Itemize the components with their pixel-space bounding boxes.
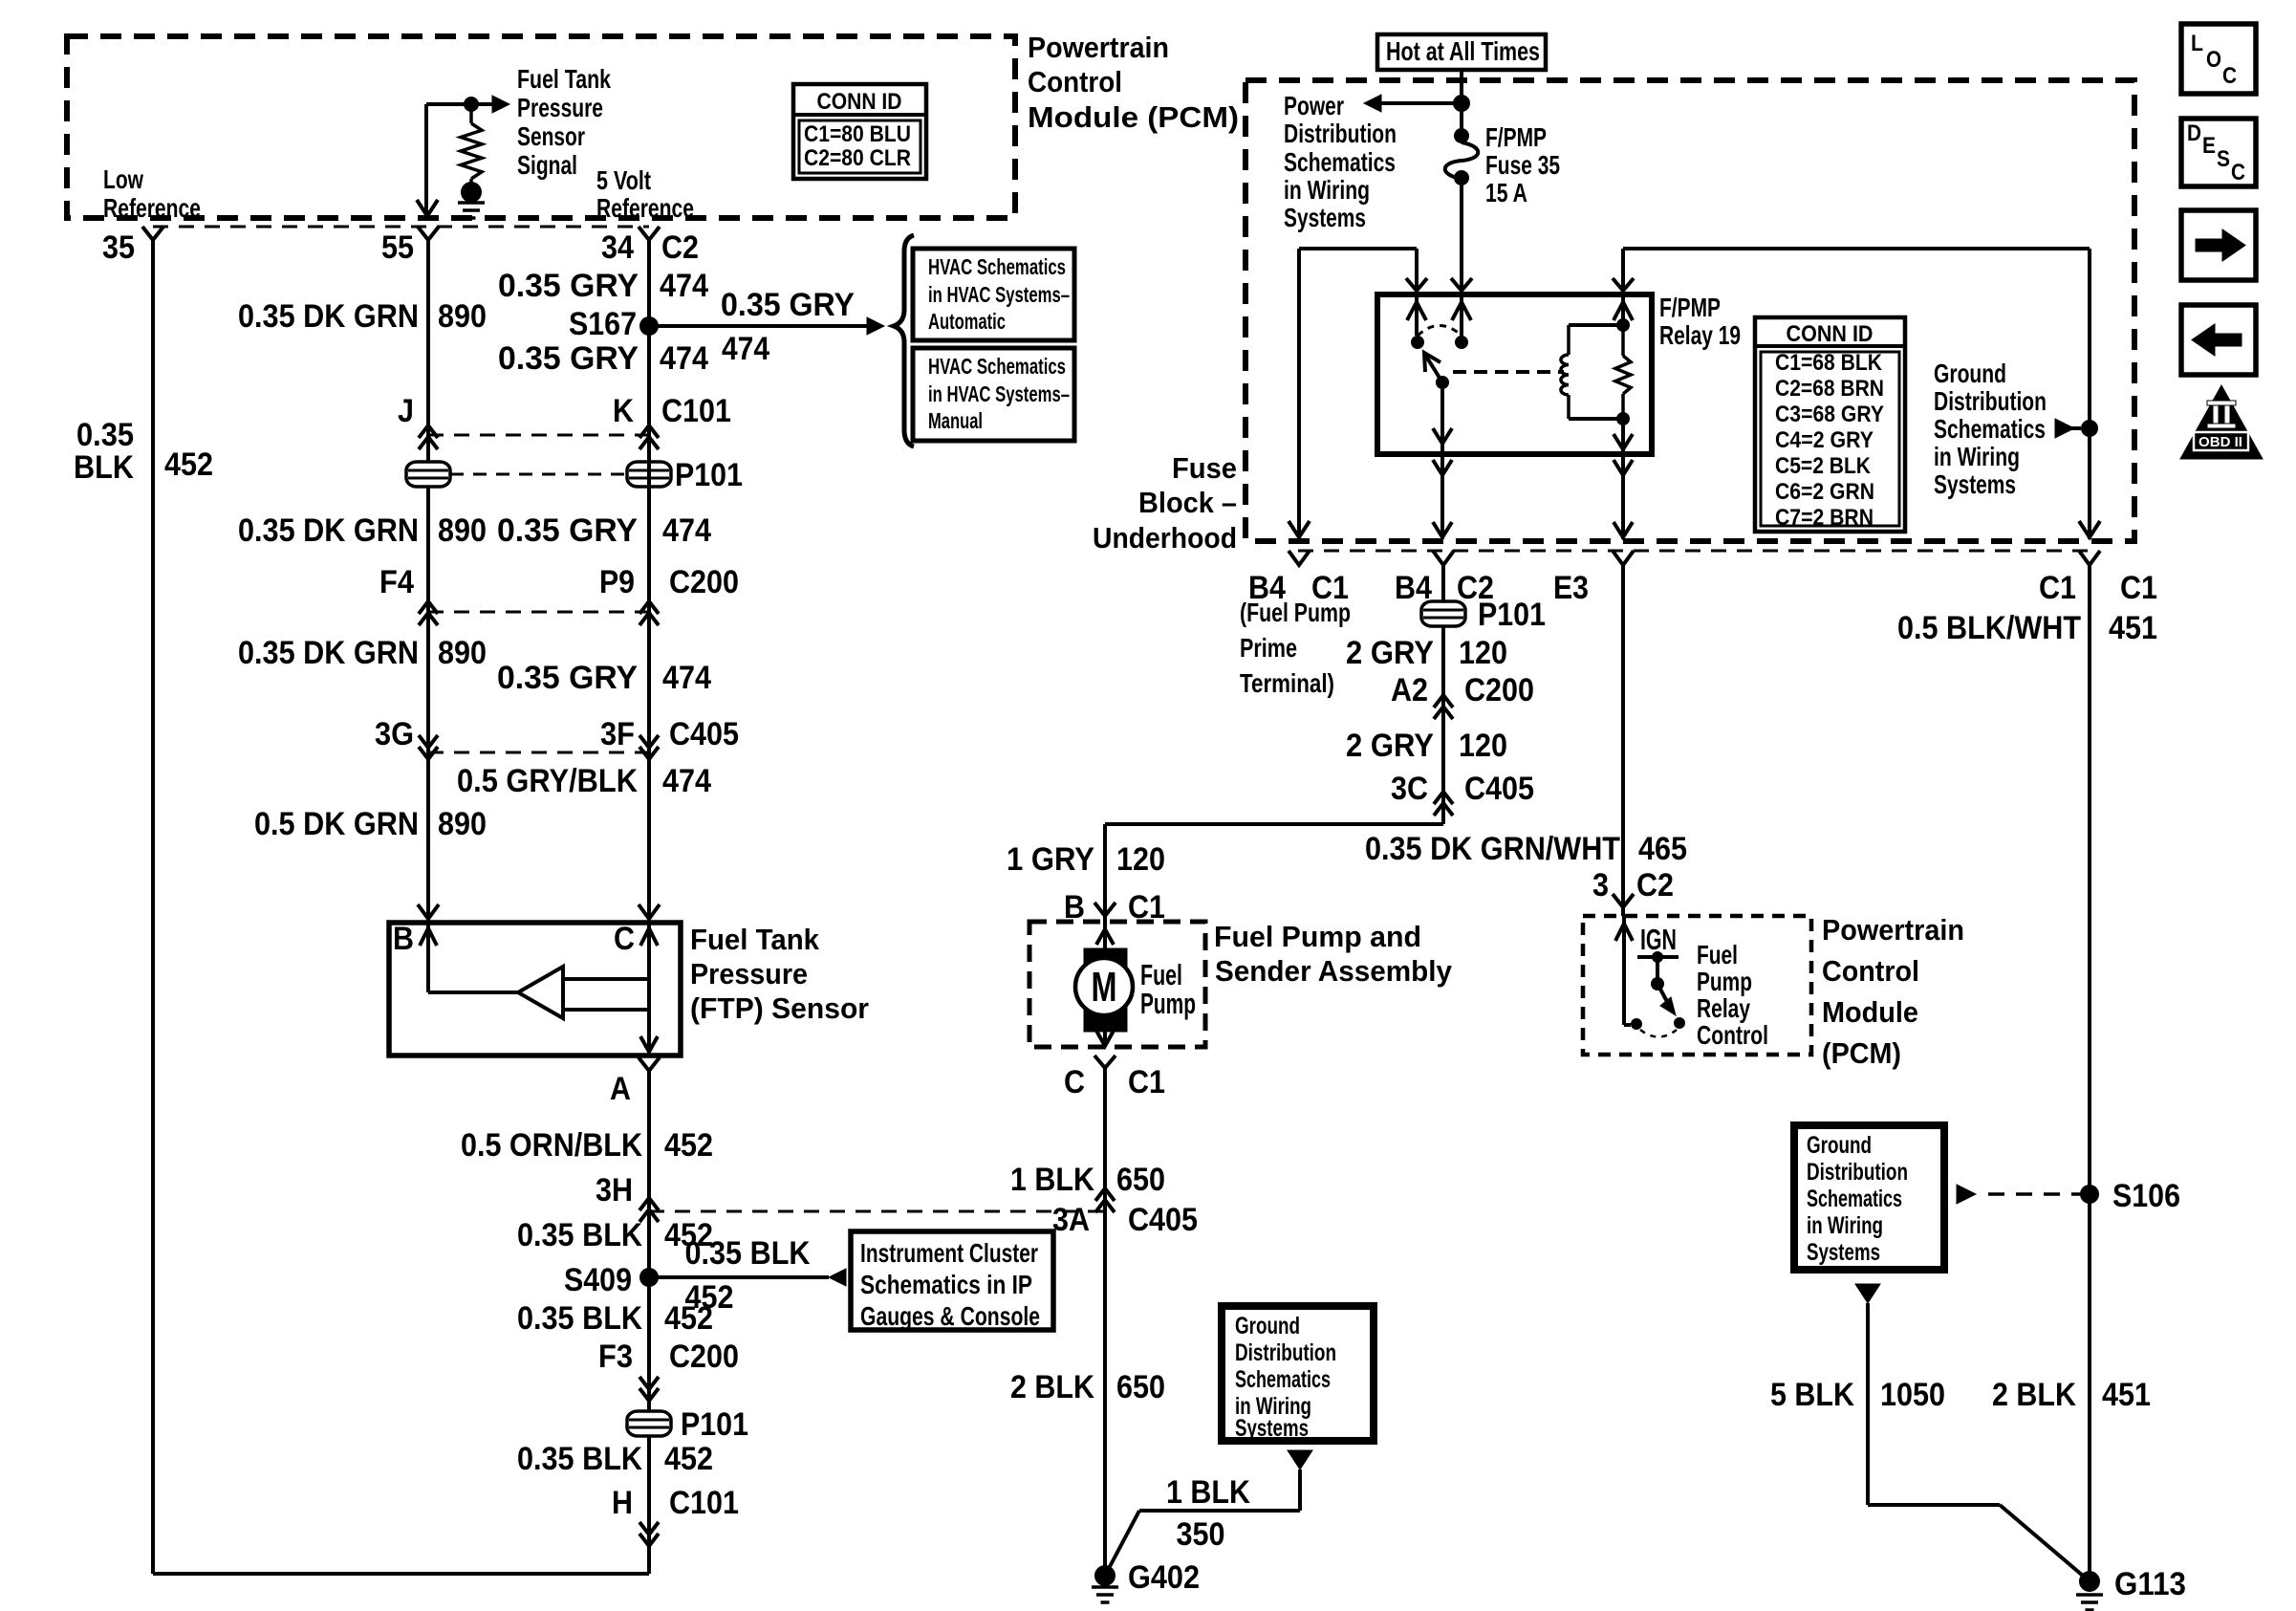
svg-text:K: K [613, 393, 634, 429]
svg-text:474: 474 [660, 340, 708, 377]
svg-text:120: 120 [1459, 728, 1507, 764]
svg-text:474: 474 [660, 268, 708, 304]
svg-text:E: E [2202, 133, 2216, 159]
svg-text:C: C [2222, 63, 2237, 89]
svg-text:S106: S106 [2112, 1178, 2180, 1214]
svg-text:C405: C405 [1464, 771, 1534, 807]
svg-text:452: 452 [664, 1300, 713, 1337]
svg-text:15 A: 15 A [1485, 178, 1527, 207]
svg-text:Relay: Relay [1697, 993, 1750, 1023]
svg-text:Terminal): Terminal) [1240, 668, 1334, 698]
svg-text:0.35 GRY: 0.35 GRY [498, 340, 639, 377]
svg-text:CONN ID: CONN ID [817, 89, 902, 115]
svg-text:Schematics: Schematics [1934, 414, 2046, 444]
svg-text:Signal: Signal [517, 150, 577, 180]
svg-text:890: 890 [438, 806, 487, 842]
svg-text:C1: C1 [2120, 570, 2157, 606]
svg-text:890: 890 [438, 298, 487, 335]
svg-text:HVAC Schematics: HVAC Schematics [928, 254, 1066, 279]
svg-text:2 GRY: 2 GRY [1346, 728, 1434, 764]
svg-text:Control: Control [1697, 1020, 1768, 1050]
svg-text:S167: S167 [569, 306, 637, 342]
svg-text:C: C [1064, 1064, 1085, 1100]
svg-text:C200: C200 [669, 1339, 739, 1375]
svg-text:120: 120 [1116, 841, 1165, 878]
svg-text:3: 3 [1592, 867, 1609, 903]
svg-text:C405: C405 [669, 716, 739, 752]
svg-text:J: J [398, 393, 414, 429]
svg-text:3F: 3F [600, 716, 635, 752]
svg-text:Schematics: Schematics [1807, 1186, 1902, 1212]
svg-text:0.35 BLK: 0.35 BLK [685, 1235, 811, 1272]
svg-text:M: M [1092, 964, 1117, 1011]
svg-text:H: H [612, 1485, 633, 1521]
svg-text:0.35 GRY: 0.35 GRY [497, 660, 638, 696]
svg-text:Fuse 35: Fuse 35 [1485, 150, 1560, 180]
svg-text:C200: C200 [1464, 672, 1534, 708]
svg-text:OBD II: OBD II [2199, 434, 2242, 450]
svg-text:0.5 DK GRN: 0.5 DK GRN [254, 806, 419, 842]
svg-text:in HVAC Systems–: in HVAC Systems– [928, 282, 1070, 307]
svg-text:C5=2 BLK: C5=2 BLK [1775, 453, 1872, 479]
svg-text:BLK: BLK [74, 449, 134, 486]
svg-text:452: 452 [164, 446, 213, 483]
svg-text:Powertrain: Powertrain [1028, 31, 1169, 64]
svg-text:1 GRY: 1 GRY [1007, 841, 1094, 878]
svg-text:Relay 19: Relay 19 [1659, 320, 1741, 350]
svg-text:F/PMP: F/PMP [1659, 293, 1721, 322]
svg-text:Power: Power [1284, 91, 1344, 120]
svg-text:A2: A2 [1391, 672, 1428, 708]
svg-text:E3: E3 [1553, 570, 1589, 606]
svg-text:Fuel Pump and: Fuel Pump and [1214, 920, 1421, 953]
svg-text:0.35 BLK: 0.35 BLK [517, 1217, 642, 1253]
svg-text:Systems: Systems [1934, 469, 2016, 499]
svg-text:A: A [610, 1071, 631, 1107]
svg-text:in Wiring: in Wiring [1934, 442, 2020, 471]
svg-text:(PCM): (PCM) [1822, 1036, 1901, 1070]
svg-text:C101: C101 [669, 1485, 739, 1521]
svg-text:C3=68 GRY: C3=68 GRY [1775, 402, 1884, 427]
svg-text:3H: 3H [596, 1172, 633, 1208]
svg-text:C200: C200 [669, 564, 739, 600]
svg-text:Control: Control [1028, 65, 1122, 98]
svg-text:0.5 GRY/BLK: 0.5 GRY/BLK [457, 763, 638, 799]
svg-text:D: D [2187, 120, 2201, 146]
svg-text:Automatic: Automatic [928, 309, 1006, 334]
svg-text:120: 120 [1459, 635, 1507, 671]
svg-text:Schematics: Schematics [1284, 147, 1396, 177]
svg-text:G402: G402 [1128, 1559, 1200, 1596]
svg-text:C2: C2 [1636, 867, 1674, 903]
svg-text:35: 35 [102, 229, 135, 266]
svg-text:0.35 BLK: 0.35 BLK [517, 1300, 642, 1337]
svg-text:Systems: Systems [1284, 203, 1366, 232]
svg-text:S: S [2217, 146, 2230, 172]
svg-text:2 GRY: 2 GRY [1346, 635, 1434, 671]
svg-text:0.35 BLK: 0.35 BLK [517, 1441, 642, 1477]
svg-text:C2=68 BRN: C2=68 BRN [1775, 376, 1884, 402]
svg-text:3A: 3A [1052, 1202, 1090, 1238]
svg-text:Distribution: Distribution [1807, 1159, 1908, 1186]
svg-text:Distribution: Distribution [1284, 119, 1397, 148]
svg-text:5 BLK: 5 BLK [1770, 1377, 1854, 1413]
svg-text:5 Volt: 5 Volt [596, 165, 651, 195]
svg-text:0.35 DK GRN: 0.35 DK GRN [238, 635, 419, 671]
svg-text:Control: Control [1822, 954, 1919, 988]
svg-text:S409: S409 [564, 1262, 632, 1298]
svg-text:O: O [2206, 47, 2221, 73]
svg-text:3G: 3G [375, 716, 414, 752]
svg-text:34: 34 [601, 229, 634, 266]
svg-text:in HVAC Systems–: in HVAC Systems– [928, 381, 1070, 406]
svg-text:474: 474 [722, 331, 769, 367]
svg-text:C2=80 CLR: C2=80 CLR [804, 145, 911, 171]
svg-text:0.35 DK GRN: 0.35 DK GRN [238, 298, 419, 335]
svg-text:Prime: Prime [1240, 633, 1297, 663]
svg-text:Ground: Ground [1807, 1132, 1872, 1159]
svg-text:Module (PCM): Module (PCM) [1028, 100, 1239, 134]
svg-text:Instrument Cluster: Instrument Cluster [860, 1238, 1038, 1268]
svg-text:HVAC Schematics: HVAC Schematics [928, 354, 1066, 379]
svg-text:Schematics: Schematics [1235, 1366, 1331, 1393]
svg-text:Pump: Pump [1697, 967, 1752, 996]
svg-text:Manual: Manual [928, 408, 983, 433]
svg-text:452: 452 [664, 1441, 713, 1477]
svg-text:451: 451 [2109, 610, 2157, 646]
svg-text:890: 890 [438, 512, 487, 549]
svg-text:F/PMP: F/PMP [1485, 122, 1547, 152]
svg-text:0.35 DK GRN: 0.35 DK GRN [238, 512, 419, 549]
svg-text:890: 890 [438, 635, 487, 671]
svg-text:P101: P101 [681, 1406, 748, 1443]
svg-text:0.35: 0.35 [76, 417, 134, 453]
svg-text:Block –: Block – [1138, 486, 1237, 519]
svg-text:Pressure: Pressure [690, 957, 808, 991]
svg-text:Pump: Pump [1140, 987, 1196, 1020]
svg-text:Reference: Reference [103, 193, 201, 223]
svg-text:C101: C101 [661, 393, 731, 429]
svg-text:465: 465 [1638, 831, 1687, 867]
svg-text:(FTP) Sensor: (FTP) Sensor [690, 991, 869, 1025]
svg-text:P9: P9 [599, 564, 635, 600]
svg-text:Module: Module [1822, 995, 1918, 1029]
svg-text:Pressure: Pressure [517, 93, 603, 122]
svg-text:Reference: Reference [596, 193, 694, 223]
svg-text:Systems: Systems [1235, 1415, 1309, 1442]
svg-text:Schematics in IP: Schematics in IP [860, 1270, 1032, 1299]
svg-text:Low: Low [103, 164, 143, 194]
svg-text:2 BLK: 2 BLK [1992, 1377, 2076, 1413]
svg-text:C1: C1 [2039, 570, 2076, 606]
svg-text:P101: P101 [1478, 597, 1546, 633]
svg-text:IGN: IGN [1640, 923, 1677, 956]
svg-text:Ground: Ground [1235, 1313, 1300, 1339]
svg-text:C1=80 BLU: C1=80 BLU [804, 121, 911, 147]
svg-text:C: C [2231, 160, 2245, 185]
svg-text:C6=2 GRN: C6=2 GRN [1775, 479, 1874, 505]
svg-text:C1: C1 [1128, 1064, 1165, 1100]
svg-text:P101: P101 [675, 457, 743, 493]
svg-text:0.5 BLK/WHT: 0.5 BLK/WHT [1897, 610, 2081, 646]
svg-text:Gauges & Console: Gauges & Console [860, 1301, 1040, 1331]
svg-text:C2: C2 [661, 229, 699, 266]
svg-text:CONN ID: CONN ID [1787, 321, 1874, 347]
svg-text:C: C [614, 921, 635, 957]
svg-text:Sensor: Sensor [517, 121, 585, 151]
svg-text:Fuel Tank: Fuel Tank [517, 64, 611, 94]
svg-text:Underhood: Underhood [1093, 521, 1237, 555]
svg-text:F4: F4 [379, 564, 414, 600]
svg-text:Powertrain: Powertrain [1822, 913, 1964, 947]
svg-text:Fuse: Fuse [1172, 451, 1237, 485]
svg-text:1 BLK: 1 BLK [1166, 1474, 1250, 1511]
svg-text:L: L [2191, 31, 2203, 56]
svg-text:Ground: Ground [1934, 359, 2006, 388]
svg-text:650: 650 [1116, 1162, 1165, 1198]
svg-text:in Wiring: in Wiring [1807, 1212, 1883, 1239]
svg-text:C1=68 BLK: C1=68 BLK [1775, 350, 1883, 376]
svg-text:F3: F3 [598, 1339, 633, 1375]
svg-text:Fuel: Fuel [1697, 940, 1738, 969]
svg-text:451: 451 [2102, 1377, 2151, 1413]
svg-text:0.35 DK GRN/WHT: 0.35 DK GRN/WHT [1365, 831, 1620, 867]
svg-text:C4=2 GRY: C4=2 GRY [1775, 427, 1874, 453]
svg-text:B4: B4 [1395, 570, 1432, 606]
svg-text:350: 350 [1177, 1516, 1225, 1553]
svg-text:0.35 GRY: 0.35 GRY [498, 268, 639, 304]
svg-text:Distribution: Distribution [1934, 386, 2047, 416]
svg-text:in Wiring: in Wiring [1284, 175, 1370, 205]
svg-text:Sender Assembly: Sender Assembly [1215, 954, 1453, 988]
svg-text:Hot at All Times: Hot at All Times [1386, 36, 1540, 66]
svg-text:474: 474 [662, 512, 711, 549]
svg-text:C405: C405 [1128, 1202, 1198, 1238]
svg-text:452: 452 [664, 1127, 713, 1164]
svg-text:55: 55 [381, 229, 414, 266]
svg-text:G113: G113 [2114, 1566, 2186, 1602]
svg-text:C7=2 BRN: C7=2 BRN [1775, 505, 1874, 531]
svg-text:Systems: Systems [1807, 1239, 1880, 1266]
svg-text:1 BLK: 1 BLK [1010, 1162, 1094, 1198]
svg-text:0.35 GRY: 0.35 GRY [721, 287, 855, 323]
svg-text:1050: 1050 [1880, 1377, 1945, 1413]
svg-text:474: 474 [662, 660, 711, 696]
svg-text:B: B [393, 921, 414, 957]
svg-text:0.5 ORN/BLK: 0.5 ORN/BLK [461, 1127, 642, 1164]
svg-text:2 BLK: 2 BLK [1010, 1369, 1094, 1405]
svg-text:0.35 GRY: 0.35 GRY [497, 512, 638, 549]
svg-text:(Fuel Pump: (Fuel Pump [1240, 598, 1351, 627]
svg-text:Distribution: Distribution [1235, 1339, 1336, 1366]
svg-text:Fuel Tank: Fuel Tank [690, 923, 820, 956]
svg-text:474: 474 [662, 763, 711, 799]
svg-text:650: 650 [1116, 1369, 1165, 1405]
svg-text:3C: 3C [1391, 771, 1428, 807]
